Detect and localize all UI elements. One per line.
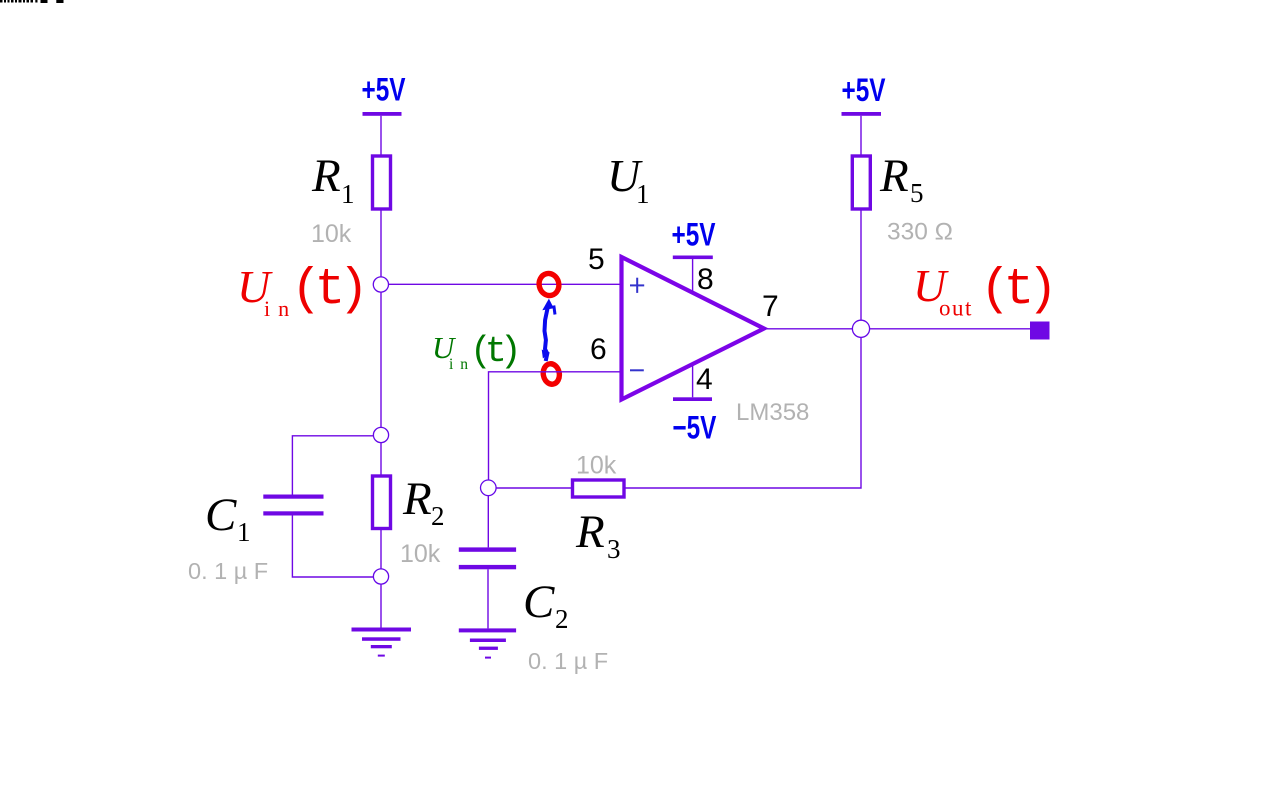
power symbol +5V (right, above R5) <box>842 73 886 156</box>
svg-text:R: R <box>311 150 341 202</box>
wire node A to op-amp +input (pin 5) <box>389 283 622 285</box>
red annotation circle (bottom, on -input wire) <box>542 362 561 385</box>
svg-text:7: 7 <box>762 290 779 323</box>
ground symbol (left) <box>352 628 412 657</box>
svg-text:LM358: LM358 <box>736 399 809 426</box>
resistor R1 <box>311 150 391 248</box>
svg-text:C: C <box>523 576 555 628</box>
node E (output node) <box>852 320 869 337</box>
svg-text:2: 2 <box>555 604 569 634</box>
wire node E to output terminal <box>870 328 1030 330</box>
op-amp + symbol <box>630 278 644 293</box>
ground symbol (under C2) <box>459 628 516 658</box>
svg-text:0. 1 µ F: 0. 1 µ F <box>528 648 608 674</box>
label Uout(t) red <box>913 260 1051 321</box>
svg-text:(t): (t) <box>980 262 1051 319</box>
op-amp - symbol <box>630 369 644 371</box>
svg-text:(t): (t) <box>470 331 516 372</box>
svg-text:1: 1 <box>237 517 251 547</box>
svg-text:+5V: +5V <box>362 72 406 108</box>
label Uin(t) green (annotation) <box>432 330 516 373</box>
svg-text:1: 1 <box>636 179 650 209</box>
wire node E up to R5 <box>860 210 862 320</box>
svg-text:+5V: +5V <box>842 73 886 109</box>
cropped text fragment (top-left corner) <box>0 0 64 3</box>
wire node A down to node B <box>380 292 382 428</box>
svg-text:C: C <box>205 489 237 541</box>
svg-text:out: out <box>939 296 973 321</box>
resistor R2 <box>373 473 445 568</box>
svg-text:3: 3 <box>607 534 621 564</box>
feedback wire R3 to node E <box>626 337 862 488</box>
svg-text:2: 2 <box>431 501 445 531</box>
wire corner to op-amp -input (pin 6) <box>489 372 622 480</box>
svg-text:6: 6 <box>590 333 607 366</box>
svg-text:+5V: +5V <box>672 217 716 253</box>
node D (inverting input node) <box>481 480 497 496</box>
wire R2 bottom to node C <box>380 528 382 569</box>
svg-text:5: 5 <box>910 178 924 208</box>
node C <box>373 569 388 584</box>
op-amp U1 triangle <box>622 257 765 400</box>
svg-text:(t): (t) <box>291 262 362 319</box>
wire node B to C1 branch <box>292 436 373 495</box>
svg-text:1: 1 <box>341 179 355 209</box>
resistor R5 <box>852 150 953 246</box>
node B <box>373 427 388 442</box>
svg-text:10k: 10k <box>311 220 352 248</box>
svg-text:5: 5 <box>588 243 605 276</box>
svg-text:330 Ω: 330 Ω <box>887 219 953 246</box>
wire node C to ground <box>380 584 382 628</box>
output terminal square <box>1030 322 1050 340</box>
svg-text:4: 4 <box>696 363 713 396</box>
svg-text:10k: 10k <box>576 452 617 480</box>
svg-text:−5V: −5V <box>672 410 716 446</box>
svg-text:8: 8 <box>697 263 714 296</box>
svg-text:0. 1 µ F: 0. 1 µ F <box>188 558 268 584</box>
capacitor C2 <box>459 547 608 674</box>
wire node D down to C2 <box>487 496 489 548</box>
power symbol +5V (left, above R1) <box>362 72 406 154</box>
wire C1 bottom to node C <box>292 516 373 578</box>
svg-text:R: R <box>879 150 909 202</box>
label U1 (op-amp designator) <box>607 150 650 209</box>
svg-text:10k: 10k <box>400 540 441 568</box>
op-amp V+ power bar +5V (pin 8) <box>672 217 716 291</box>
wire node B to R2 <box>380 443 382 477</box>
op-amp V- power bar -5V (pin 4) <box>672 366 716 446</box>
wire op-amp output (pin 7) to node E <box>764 328 853 330</box>
wire R1 bottom to node A <box>380 209 382 277</box>
svg-text:R: R <box>402 473 432 525</box>
red annotation circle (top, on +input wire) <box>537 271 561 297</box>
svg-text:R: R <box>575 506 605 558</box>
node A (input node) <box>373 277 388 292</box>
wire node D to R3 <box>496 487 571 489</box>
capacitor C1 <box>188 489 324 584</box>
wire C2 bottom to ground <box>487 569 489 628</box>
label Uin(t) red <box>237 261 362 321</box>
resistor R3 <box>573 452 625 565</box>
blue annotation arrow (double-headed) <box>542 299 555 361</box>
